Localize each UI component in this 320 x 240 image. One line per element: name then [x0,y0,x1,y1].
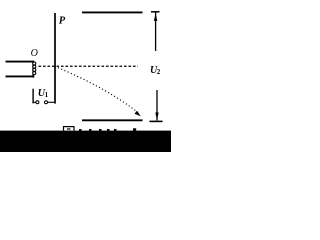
svg-text:2: 2 [157,68,161,76]
dimension bottom line [156,90,158,120]
black strip [0,131,171,152]
U1 right circle marker [45,101,48,104]
dimension top tick [151,11,160,13]
screen bottom line [82,119,143,121]
dimension top line [155,13,157,52]
electron gun bottom line [6,75,35,77]
trajectory arrowhead [135,111,141,117]
trajectory dotted curve [55,66,139,113]
electron gun top line [6,61,35,63]
caption smear marks [79,128,136,131]
U1 right leader line [48,101,55,103]
U1 left leader line [33,101,36,103]
svg-text:O: O [31,48,38,59]
dimension top arrow (up) [154,13,157,21]
dimension bottom arrow (down) [155,113,158,121]
caption fragment box (cut 图 glyph) [63,127,75,131]
dimension bottom tick [150,120,163,122]
axis dashed line [39,65,139,67]
U1 left circle marker [36,101,39,104]
filament coil bumps [33,62,36,75]
electron gun cathode bar [32,61,34,78]
svg-text:P: P [59,16,66,27]
plate top line [82,11,143,13]
U1 left bar [32,89,34,104]
svg-text:1: 1 [45,91,49,99]
wire vertical line P [54,13,56,104]
